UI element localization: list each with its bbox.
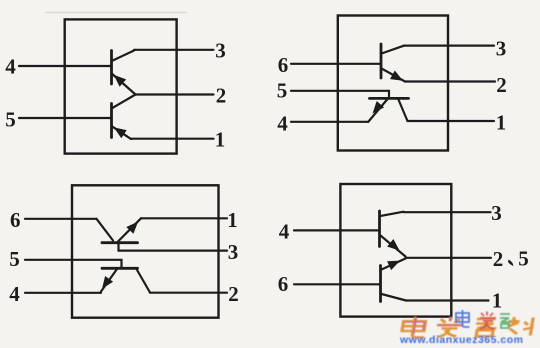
wire pin 3 (top-right) bbox=[404, 44, 495, 46]
svg-text:4: 4 bbox=[277, 111, 288, 135]
svg-text:www.dianxuez365.com: www.dianxuez365.com bbox=[399, 334, 523, 346]
wire pin 4 (bottom-left) bbox=[25, 292, 101, 294]
svg-text:2: 2 bbox=[216, 84, 227, 108]
wire pin 1 (top-right) bbox=[408, 120, 495, 122]
wire pin 6 to Q8 base bbox=[294, 283, 381, 285]
wire pin 1 (top-left) bbox=[131, 138, 214, 140]
svg-text:3: 3 bbox=[491, 201, 502, 225]
svg-text:1: 1 bbox=[227, 208, 238, 232]
transistor Q5 (bottom-left upper, inverted) bbox=[97, 218, 142, 250]
svg-text:6: 6 bbox=[278, 272, 289, 296]
svg-text:3: 3 bbox=[215, 39, 226, 63]
transistor Q8 (bottom-right lower) bbox=[381, 259, 407, 302]
wire pin 1 (bottom-left) bbox=[141, 217, 227, 219]
svg-text:1: 1 bbox=[215, 127, 226, 151]
wire pin 2 (bottom-left) bbox=[150, 292, 227, 294]
wire pin 1 (bottom-right) bbox=[406, 299, 489, 301]
wire pin 5 to Q4 base bbox=[291, 91, 389, 97]
svg-text:1: 1 bbox=[492, 289, 503, 313]
wire pin 3 (top-left) bbox=[134, 49, 214, 51]
svg-text:2: 2 bbox=[228, 282, 239, 306]
svg-text:4: 4 bbox=[9, 282, 20, 306]
faint scan artifact line above top-left package bbox=[46, 12, 186, 14]
wire pin 4 (top-right) bbox=[291, 121, 369, 123]
watermark logo bbox=[399, 310, 535, 346]
svg-text:3: 3 bbox=[228, 240, 239, 264]
wire pin 3 (bottom-left) bbox=[119, 250, 228, 252]
ideographic comma between 2 and 5 bbox=[508, 260, 514, 267]
wire pin 5 to Q6 base (bottom-left) bbox=[25, 260, 122, 268]
svg-text:2: 2 bbox=[493, 247, 504, 271]
wire pin 6 (bottom-left) bbox=[25, 218, 97, 220]
svg-text:5: 5 bbox=[5, 107, 16, 131]
wire pin 4 to Q7 base bbox=[294, 229, 380, 231]
svg-text:4: 4 bbox=[279, 219, 290, 243]
svg-text:6: 6 bbox=[10, 208, 21, 232]
svg-text:5: 5 bbox=[518, 247, 529, 271]
svg-text:4: 4 bbox=[5, 55, 16, 79]
transistor Q7 (bottom-right upper) bbox=[380, 211, 406, 257]
wire pin 6 to Q3 base bbox=[291, 63, 381, 65]
wire pin 5 to Q2 base bbox=[19, 117, 112, 119]
package outline (bottom-left) bbox=[72, 185, 219, 317]
transistor Q6 (bottom-left lower, inverted) bbox=[101, 268, 150, 292]
wire pin 2 common node (top-left) bbox=[136, 93, 214, 95]
wire pin 4 to Q1 base bbox=[19, 65, 112, 67]
transistor Q1 (top-left upper) bbox=[112, 51, 136, 95]
svg-text:5: 5 bbox=[9, 247, 20, 271]
svg-text:6: 6 bbox=[278, 53, 289, 77]
package outline (top-right) bbox=[338, 16, 448, 151]
svg-text:3: 3 bbox=[496, 36, 507, 60]
svg-text:5: 5 bbox=[277, 78, 288, 102]
transistor Q2 (top-left lower) bbox=[112, 95, 136, 140]
svg-text:1: 1 bbox=[496, 111, 507, 135]
wire pin 3 (bottom-right) bbox=[404, 211, 491, 213]
package outline (bottom-right) bbox=[340, 184, 451, 317]
wire pins 2,5 common node (bottom-right) bbox=[406, 257, 492, 259]
wire pin 2 (top-right) bbox=[405, 80, 495, 82]
svg-text:2: 2 bbox=[496, 73, 507, 97]
package outline (top-left dual transistor) bbox=[65, 19, 177, 153]
transistor Q3 (top-right upper) bbox=[381, 44, 405, 82]
transistor Q4 (top-right lower, inverted) bbox=[369, 98, 409, 121]
